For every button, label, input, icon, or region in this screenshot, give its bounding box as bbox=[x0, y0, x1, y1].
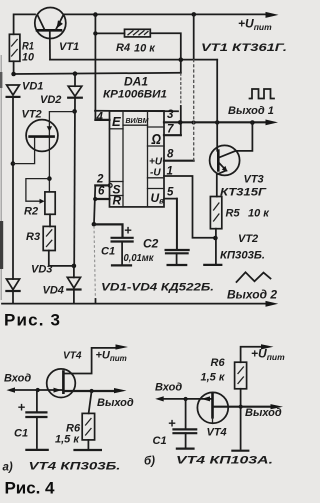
svg-text:VT3: VT3 bbox=[244, 174, 264, 186]
svg-text:VD1: VD1 bbox=[22, 81, 43, 93]
svg-text:VT4: VT4 bbox=[207, 427, 227, 439]
svg-text:R3: R3 bbox=[26, 231, 40, 243]
svg-text:R4: R4 bbox=[116, 42, 130, 54]
svg-text:VT4 КП103А.: VT4 КП103А. bbox=[176, 455, 273, 467]
svg-text:Вход: Вход bbox=[4, 373, 31, 385]
svg-text:10 к: 10 к bbox=[134, 43, 156, 55]
svg-text:+U: +U bbox=[149, 157, 163, 168]
svg-text:КТ315Г: КТ315Г bbox=[220, 187, 267, 199]
svg-text:R: R bbox=[113, 194, 122, 208]
svg-text:КП303Б.: КП303Б. bbox=[220, 250, 265, 262]
svg-text:2: 2 bbox=[96, 174, 104, 186]
svg-text:VT4 КП303Б.: VT4 КП303Б. bbox=[29, 461, 121, 473]
svg-text:7: 7 bbox=[167, 124, 174, 136]
svg-text:10 к: 10 к bbox=[248, 208, 270, 220]
svg-text:C1: C1 bbox=[14, 428, 28, 440]
svg-text:Выход 1: Выход 1 bbox=[228, 105, 274, 117]
svg-text:VT2: VT2 bbox=[238, 233, 258, 245]
svg-text:Рис. 3: Рис. 3 bbox=[4, 311, 60, 330]
svg-text:R5: R5 bbox=[226, 208, 241, 220]
svg-text:Рис. 4: Рис. 4 bbox=[5, 479, 56, 498]
svg-text:E: E bbox=[112, 114, 121, 129]
svg-text:Ω: Ω bbox=[151, 132, 162, 148]
svg-text:6: 6 bbox=[98, 186, 105, 198]
svg-text:VD3: VD3 bbox=[31, 264, 52, 276]
svg-text:+: + bbox=[124, 223, 132, 238]
svg-text:10: 10 bbox=[22, 52, 35, 64]
svg-text:DA1: DA1 bbox=[124, 75, 148, 89]
svg-text:VT1 КТ361Г.: VT1 КТ361Г. bbox=[201, 42, 287, 54]
svg-text:+: + bbox=[18, 400, 26, 415]
svg-text:Выход: Выход bbox=[245, 407, 282, 419]
svg-text:+: + bbox=[168, 416, 176, 431]
svg-text:1: 1 bbox=[167, 166, 173, 178]
svg-text:1,5 к: 1,5 к bbox=[55, 434, 80, 446]
svg-text:VD1-VD4 КД522Б.: VD1-VD4 КД522Б. bbox=[101, 282, 214, 294]
svg-text:C1: C1 bbox=[153, 435, 167, 447]
svg-text:Выход 2: Выход 2 bbox=[227, 290, 278, 302]
svg-text:R6: R6 bbox=[211, 357, 226, 369]
svg-text:1,5 к: 1,5 к bbox=[201, 372, 226, 384]
svg-text:4: 4 bbox=[96, 112, 104, 124]
svg-text:КР1006ВИ1: КР1006ВИ1 bbox=[103, 89, 167, 101]
svg-text:VD2: VD2 bbox=[40, 94, 61, 106]
svg-text:R2: R2 bbox=[24, 206, 38, 218]
svg-text:8: 8 bbox=[167, 149, 174, 161]
svg-text:ВИ/ВМ: ВИ/ВМ bbox=[126, 118, 149, 125]
svg-text:VT1: VT1 bbox=[59, 41, 79, 53]
svg-text:C2: C2 bbox=[143, 237, 159, 251]
svg-text:VT2: VT2 bbox=[22, 109, 42, 121]
svg-text:-U: -U bbox=[150, 168, 161, 179]
svg-text:VT4: VT4 bbox=[63, 350, 82, 362]
svg-text:Вход: Вход bbox=[155, 382, 182, 394]
svg-text:0,01мк: 0,01мк bbox=[124, 253, 155, 264]
svg-text:3: 3 bbox=[167, 109, 174, 121]
svg-text:б): б) bbox=[144, 456, 155, 468]
svg-text:C1: C1 bbox=[101, 246, 115, 258]
svg-text:5: 5 bbox=[167, 187, 174, 199]
svg-text:а): а) bbox=[3, 462, 13, 474]
svg-text:VD4: VD4 bbox=[43, 285, 64, 297]
svg-text:Выход: Выход bbox=[97, 397, 134, 409]
